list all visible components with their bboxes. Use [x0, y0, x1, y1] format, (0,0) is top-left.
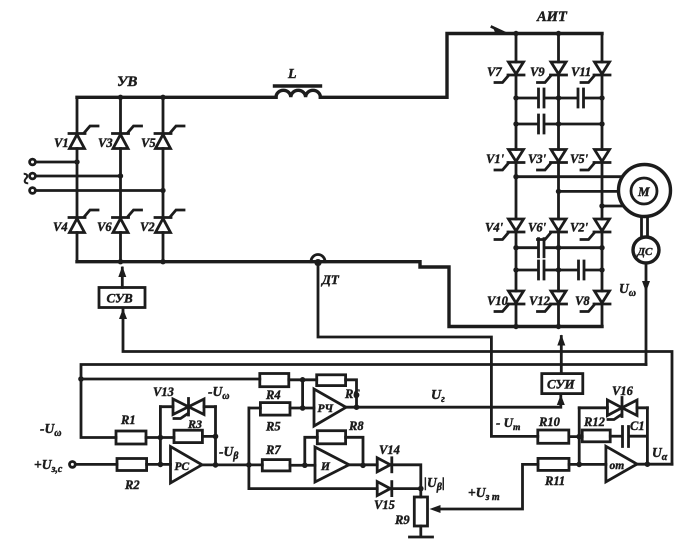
thyristor V3'	[538, 150, 567, 171]
wire: motor phase line from leg2	[559, 190, 619, 193]
svg-text:V7: V7	[487, 65, 502, 79]
resistor R10	[538, 415, 569, 443]
thyristor V12	[538, 291, 567, 312]
svg-text:R5: R5	[265, 420, 281, 434]
wire: R12 to C1	[610, 435, 622, 438]
wire: row2 right plain	[559, 123, 603, 126]
wire: phase 3	[36, 189, 164, 192]
wire: R7 to И input	[290, 464, 315, 467]
arrow: СУИ to inverter	[557, 335, 565, 346]
AC input terminal phase 3	[30, 188, 36, 194]
thyristor V1	[69, 126, 98, 149]
wire: Uα line from ОТ output to СУВ	[123, 309, 672, 464]
thyristor V4	[69, 210, 98, 233]
wire: R4 to РЧ input node	[289, 380, 317, 408]
svg-text:V15: V15	[374, 498, 395, 512]
wire: R6 to РЧ output	[346, 380, 357, 407]
wire: ОТ input vertical (V16/R12/R11 node)	[578, 408, 581, 465]
thyristor V2	[155, 210, 184, 233]
thyristor V11	[581, 62, 610, 83]
wire: motor phase line from leg1	[516, 175, 622, 178]
resistor R1	[116, 413, 146, 444]
svg-text:R12: R12	[583, 415, 605, 429]
svg-text:С1: С1	[630, 419, 645, 433]
capacitor C1	[623, 419, 645, 447]
wire: -Uβ branch vertical to R5 and V15 line	[247, 408, 250, 489]
thyristor V10	[495, 291, 524, 312]
wire: inverter leg2 segments	[557, 34, 560, 327]
svg-text:V4': V4'	[485, 221, 504, 235]
svg-text:L: L	[287, 67, 297, 82]
wire: leg3 mid	[162, 149, 165, 218]
wire: leg2 mid	[119, 149, 122, 218]
motor M inner circle	[631, 178, 657, 204]
svg-text:Uг: Uг	[431, 388, 445, 405]
thyristor V2'	[581, 219, 610, 240]
thyristor V9	[538, 62, 567, 83]
svg-text:R1: R1	[120, 413, 136, 427]
svg-text:АИТ: АИТ	[536, 9, 568, 25]
svg-text:V2': V2'	[570, 221, 589, 235]
wire: motor phase line from leg3	[602, 205, 623, 208]
resistor R7	[262, 443, 290, 471]
svg-text:R10: R10	[538, 415, 561, 429]
wire: leg1 mid	[76, 149, 79, 218]
svg-text:R9: R9	[394, 513, 410, 527]
resistor R2	[117, 459, 147, 493]
node: ДТ tap	[314, 259, 321, 266]
svg-text:V8: V8	[575, 294, 590, 308]
resistor R6 feedback	[317, 375, 361, 401]
commutating capacitor row4 right	[559, 261, 603, 279]
wire: inverter leg1 segments	[515, 34, 518, 327]
svg-text:V5': V5'	[570, 152, 589, 166]
svg-text:R7: R7	[265, 443, 281, 457]
wire: C1 to feedback vertical	[629, 408, 647, 464]
wire: rectifier bottom bus to inverter bottom bus	[77, 262, 602, 327]
wire: leg3 lower	[162, 233, 165, 262]
svg-text:от: от	[610, 460, 625, 472]
svg-text:V10: V10	[487, 294, 509, 308]
motor M outer circle	[619, 165, 671, 217]
svg-text:ДТ: ДТ	[321, 272, 340, 287]
svg-text:РЧ: РЧ	[318, 403, 334, 415]
wire: phase 1	[36, 161, 78, 164]
svg-text:~: ~	[13, 172, 38, 185]
diode V15	[374, 482, 395, 512]
svg-text:РС: РС	[175, 461, 190, 473]
resistor R4	[260, 374, 289, 403]
thyristor V5'	[581, 150, 610, 171]
wire: R8 feedback connections	[305, 437, 363, 465]
svg-text:ДС: ДС	[637, 246, 654, 258]
svg-text:V6': V6'	[528, 221, 547, 235]
wire: Uг line from РЧ output to СУИ	[346, 396, 561, 407]
thyristor V5	[155, 126, 184, 149]
commutating capacitor row1 right	[559, 89, 603, 107]
svg-text:Uα: Uα	[652, 445, 668, 463]
wire: rectifier leg 3 upper	[162, 97, 165, 133]
inductor L	[275, 67, 321, 97]
svg-text:V1: V1	[54, 136, 69, 150]
svg-text:И: И	[320, 461, 331, 473]
wire: feedback vertical left (node R1/R3)	[159, 407, 162, 465]
svg-text:R11: R11	[544, 474, 565, 488]
svg-text:+Uз т: +Uз т	[468, 485, 500, 503]
tacho generator ДС	[633, 237, 659, 263]
wire: R3 to op-amp output vertical	[202, 407, 215, 465]
svg-text:М: М	[637, 184, 650, 199]
wire: row3 right plain	[559, 246, 603, 249]
svg-text:V4: V4	[53, 220, 68, 234]
wire: DC top bus from rectifier to inductor	[77, 96, 276, 99]
wire: rectifier leg 2 upper	[119, 97, 122, 133]
svg-text:R4: R4	[265, 388, 281, 402]
control unit СУВ	[99, 288, 145, 308]
wire: V14 to |Uβ| node	[392, 465, 421, 497]
svg-text:V16: V16	[612, 384, 634, 398]
svg-text:R3: R3	[187, 417, 202, 431]
wire: -Uω line from tacho to R1	[81, 365, 646, 438]
svg-text:V2: V2	[140, 220, 155, 234]
wire: +Uз,с to R2 to op-amp input	[75, 463, 170, 466]
current sensor ДТ pickup hump	[311, 255, 325, 262]
wire: R11 to ОТ input	[569, 463, 606, 466]
arrow: current direction on inverter top bus	[493, 27, 509, 34]
wire: DC top bus from inductor to inverter	[320, 34, 602, 98]
svg-text:V5: V5	[141, 136, 156, 150]
wire: R1 to summing node	[146, 436, 174, 439]
commutating capacitor row4 left	[516, 261, 559, 279]
wire: leg2 lower	[119, 233, 122, 262]
svg-text:+Uз,с: +Uз,с	[34, 457, 63, 475]
svg-text:V3: V3	[98, 136, 113, 150]
commutating capacitor row2 left	[516, 115, 559, 133]
commutating capacitor row1 left	[516, 89, 559, 107]
svg-text:V9: V9	[530, 65, 545, 79]
AC input terminal phase 1	[30, 159, 36, 165]
op-amp ОТ current limiter	[606, 446, 637, 482]
svg-text:-Uβ: -Uβ	[219, 444, 239, 462]
thyristor V7	[495, 62, 524, 83]
svg-text:V1': V1'	[486, 152, 505, 166]
arrow: СУВ to rectifier	[118, 266, 126, 277]
thyristor V3	[113, 126, 142, 149]
wire: -Uω branch to R4	[81, 378, 260, 381]
shaft coupling motor to tacho	[642, 217, 648, 238]
ground	[410, 536, 433, 539]
limiter diode pair V16	[607, 384, 637, 420]
svg-text:V12: V12	[529, 294, 550, 308]
control unit СУИ	[542, 374, 583, 394]
svg-text:V14: V14	[379, 443, 400, 457]
svg-text:УВ: УВ	[117, 74, 137, 90]
svg-text:- Uт: - Uт	[496, 415, 520, 433]
wire: R9 to ground	[419, 526, 422, 536]
resistor R12	[582, 415, 610, 442]
op-amp РС speed regulator	[171, 447, 203, 484]
svg-text:V6: V6	[97, 220, 112, 234]
wire: V15 line from -Uβ branch	[249, 487, 377, 490]
potentiometer R9	[394, 497, 428, 527]
thyristor V4'	[495, 219, 524, 240]
svg-text:СУИ: СУИ	[547, 377, 576, 392]
resistor R8 feedback	[317, 419, 364, 444]
commutating capacitor row3 left	[516, 239, 559, 257]
terminal +Uз,с	[70, 462, 76, 468]
svg-text:V11: V11	[571, 65, 591, 79]
op-amp И integrator	[315, 447, 349, 482]
wire: И output to V14	[349, 463, 377, 466]
wire: R10 to R12 node	[569, 435, 582, 438]
resistor R11	[538, 458, 569, 488]
wire: ОТ output to Uα feedback	[637, 463, 672, 466]
wire: СУВ gate output arrow up to rectifier	[121, 268, 124, 288]
wire: rectifier leg 1 upper	[76, 97, 79, 133]
svg-text:СУВ: СУВ	[107, 291, 134, 306]
op-amp РЧ frequency regulator	[314, 389, 346, 426]
diode V14	[377, 443, 400, 472]
svg-text:Uω: Uω	[619, 281, 636, 299]
svg-text:R2: R2	[124, 478, 140, 492]
wire: РС output (-Uβ node)	[202, 463, 262, 466]
svg-text:R8: R8	[348, 419, 364, 433]
wire: ДТ current-feedback line to R10 (-Uт net)	[318, 262, 538, 436]
arrow: Uω direction down	[642, 281, 650, 292]
thyristor V6'	[538, 219, 567, 240]
thyristor V6	[113, 210, 142, 233]
svg-text:|Uβ|: |Uβ|	[424, 475, 445, 493]
resistor R3	[174, 417, 202, 443]
wire: R5 to РЧ input	[249, 407, 314, 410]
wire: V15 to |Uβ| node	[392, 487, 421, 490]
arrow: Uг into СУИ	[557, 395, 565, 406]
wire: leg1 lower	[76, 233, 79, 262]
thyristor V1'	[495, 150, 524, 171]
wiper arrow on R9 from +Uзт line	[437, 464, 538, 509]
wire: Uω feedback from tacho down	[645, 263, 648, 365]
AC input terminal phase 2	[30, 173, 36, 179]
arrow: into СУВ from below	[119, 309, 127, 320]
svg-text:V13: V13	[153, 385, 174, 399]
svg-text:-Uω: -Uω	[40, 421, 61, 439]
svg-text:-Uω: -Uω	[208, 384, 229, 402]
wire: СУИ gate output arrow up to inverter	[560, 337, 563, 374]
resistor R5	[260, 403, 290, 434]
thyristor V8	[581, 291, 610, 312]
svg-text:V3': V3'	[528, 152, 547, 166]
limiter diode pair V13	[153, 385, 216, 419]
wire: inverter leg3 segments	[601, 34, 604, 327]
wire: V16 branch	[579, 406, 647, 409]
wire: phase 2	[36, 175, 121, 178]
